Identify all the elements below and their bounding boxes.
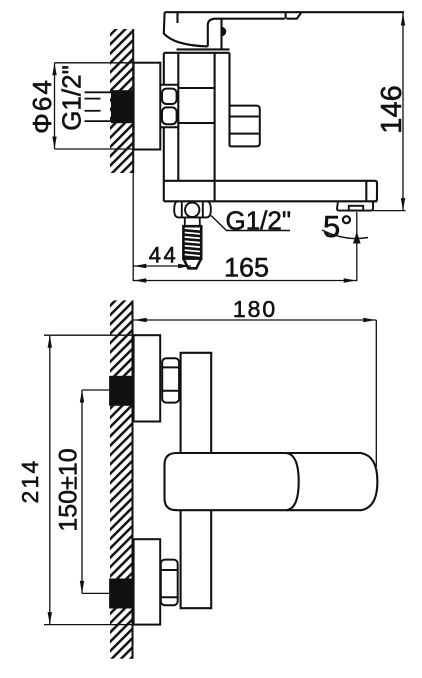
label G1/2 inch (outlet, with leader): [211, 216, 290, 231]
cap outline: [164, 12, 208, 46]
body right edge: [214, 53, 216, 202]
spout front cover edge (front view): [287, 453, 299, 510]
hub dot: [222, 27, 227, 37]
faucet body (side view): [164, 49, 230, 201]
lever notch tick: [285, 12, 287, 19]
eccentric fitting black square top (front view): [109, 376, 133, 406]
wall face line (front view): [132, 300, 134, 658]
svg-text:150±10: 150±10: [55, 448, 83, 531]
dimension 150 plus-minus 10: [82, 390, 109, 593]
dimension phi64: [55, 63, 134, 149]
threaded nipple (side view): [183, 226, 201, 268]
dimension 214: [44, 335, 159, 624]
lever hub: [208, 19, 222, 50]
lever top line + 146 extension: [165, 11, 404, 13]
wall hatch (side view): [110, 29, 133, 173]
svg-text:44: 44: [149, 243, 178, 268]
lever underside: [208, 13, 301, 24]
cap base ring lines: [177, 48, 230, 50]
wall face line (side view): [132, 29, 134, 173]
arm bottom: [164, 200, 377, 202]
escutcheon flange (side view): [134, 63, 161, 150]
svg-text:180: 180: [233, 296, 277, 322]
svg-text:G1/2": G1/2": [57, 65, 87, 131]
arm end cap line: [365, 181, 367, 202]
body front plate line: [228, 53, 230, 147]
eccentric fitting black square (side view): [111, 90, 133, 123]
svg-text:165: 165: [224, 253, 269, 283]
hose nipple stub (side view): [185, 217, 200, 226]
union nut under body (side view): [174, 201, 211, 217]
svg-text:Φ64: Φ64: [27, 78, 57, 134]
cap inner tick: [176, 12, 178, 23]
escutcheon bottom (front view): [134, 539, 161, 624]
escutcheon top (front view): [134, 335, 161, 421]
svg-text:146: 146: [376, 85, 408, 133]
arm top: [165, 180, 375, 182]
cartridge section lines: [178, 87, 214, 89]
spout pill (front view): [165, 453, 378, 510]
dimension 165: [133, 280, 357, 282]
hex nut bottom (front view): [161, 560, 178, 606]
dimension 44: [133, 173, 357, 281]
lever handle (side view): [164, 12, 404, 49]
front cover box (side view): [230, 106, 260, 147]
svg-text:G1/2": G1/2": [226, 206, 292, 236]
body column (front view): [181, 353, 212, 608]
body left edge: [163, 53, 165, 85]
eccentric fitting black square bottom (front view): [109, 579, 133, 609]
spout arm (side view): [164, 181, 377, 202]
svg-text:214: 214: [17, 459, 43, 504]
hex nut top (front view): [162, 358, 179, 402]
arm right end: [375, 181, 377, 202]
hex nut on inlet (side view): [160, 85, 178, 127]
wall hatch (front view): [110, 300, 133, 658]
supply pipe stub in wall (side view): [85, 92, 112, 121]
5 degree arc: [322, 230, 368, 239]
dimension 180: [134, 320, 377, 467]
aerator outlet (side view): [337, 201, 373, 210]
body inner left line: [177, 53, 179, 181]
dimension 146: [373, 13, 406, 211]
